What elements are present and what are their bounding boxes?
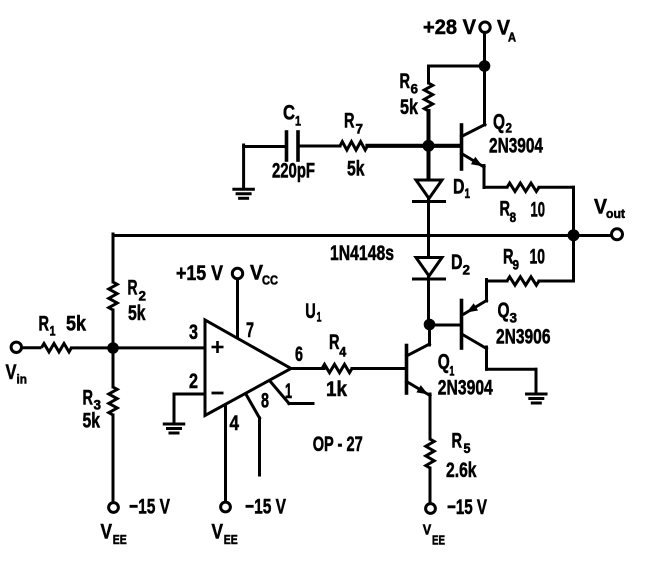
svg-text:V: V [6, 360, 18, 384]
svg-text:EE: EE [224, 532, 238, 547]
svg-text:Q: Q [493, 110, 505, 134]
svg-text:2N3906: 2N3906 [496, 325, 551, 349]
svg-text:R: R [329, 330, 340, 354]
svg-text:5k: 5k [347, 157, 365, 181]
svg-text:9: 9 [513, 257, 520, 273]
svg-text:R: R [83, 386, 94, 410]
svg-text:1N4148s: 1N4148s [330, 241, 394, 265]
svg-text:1: 1 [295, 113, 301, 129]
svg-text:V: V [212, 520, 224, 544]
svg-text:−15 V: −15 V [245, 495, 286, 519]
svg-text:5k: 5k [400, 95, 418, 119]
svg-text:10: 10 [530, 245, 546, 269]
svg-text:A: A [508, 30, 517, 45]
svg-text:−15 V: −15 V [129, 495, 170, 519]
svg-text:4: 4 [230, 411, 240, 435]
svg-text:R: R [39, 312, 50, 336]
svg-text:EE: EE [113, 532, 127, 547]
svg-text:6: 6 [295, 342, 303, 366]
svg-text:OP - 27: OP - 27 [313, 432, 363, 456]
svg-text:C: C [283, 101, 295, 125]
svg-text:5k: 5k [83, 409, 101, 433]
svg-text:−15 V: −15 V [447, 495, 487, 519]
svg-text:Q: Q [438, 350, 450, 374]
svg-text:D: D [453, 175, 465, 199]
svg-text:in: in [17, 372, 28, 387]
svg-text:+28 V: +28 V [423, 15, 477, 39]
svg-text:V: V [101, 520, 113, 544]
svg-text:R: R [344, 109, 355, 133]
svg-text:220pF: 220pF [272, 159, 315, 183]
svg-text:5k: 5k [128, 301, 146, 325]
svg-text:5k: 5k [66, 312, 86, 336]
svg-text:2.6k: 2.6k [446, 458, 477, 482]
svg-text:2: 2 [463, 262, 471, 278]
svg-text:V: V [423, 523, 432, 539]
svg-text:2: 2 [189, 369, 198, 393]
svg-text:U: U [305, 299, 316, 323]
svg-text:CC: CC [262, 273, 279, 288]
svg-text:3: 3 [189, 320, 198, 344]
svg-text:7: 7 [246, 318, 254, 342]
svg-text:R: R [452, 429, 463, 453]
svg-text:+15 V: +15 V [176, 261, 224, 285]
svg-text:out: out [606, 206, 626, 221]
svg-text:D: D [451, 250, 463, 274]
svg-text:EE: EE [432, 533, 445, 548]
svg-text:1k: 1k [326, 377, 347, 401]
svg-text:10: 10 [531, 198, 546, 222]
svg-text:8: 8 [510, 209, 517, 225]
svg-text:1: 1 [465, 185, 471, 201]
svg-text:1: 1 [317, 309, 322, 325]
svg-text:1: 1 [285, 379, 292, 403]
svg-text:5: 5 [464, 440, 471, 456]
svg-text:4: 4 [339, 343, 346, 359]
svg-text:3: 3 [510, 310, 518, 326]
svg-text:2N3904: 2N3904 [489, 134, 543, 158]
svg-text:1: 1 [50, 323, 56, 339]
svg-text:R: R [400, 69, 411, 93]
svg-text:7: 7 [356, 121, 364, 137]
svg-text:Q: Q [498, 298, 510, 322]
svg-text:8: 8 [261, 389, 269, 413]
svg-text:R: R [128, 276, 138, 300]
svg-text:2N3904: 2N3904 [438, 376, 493, 400]
